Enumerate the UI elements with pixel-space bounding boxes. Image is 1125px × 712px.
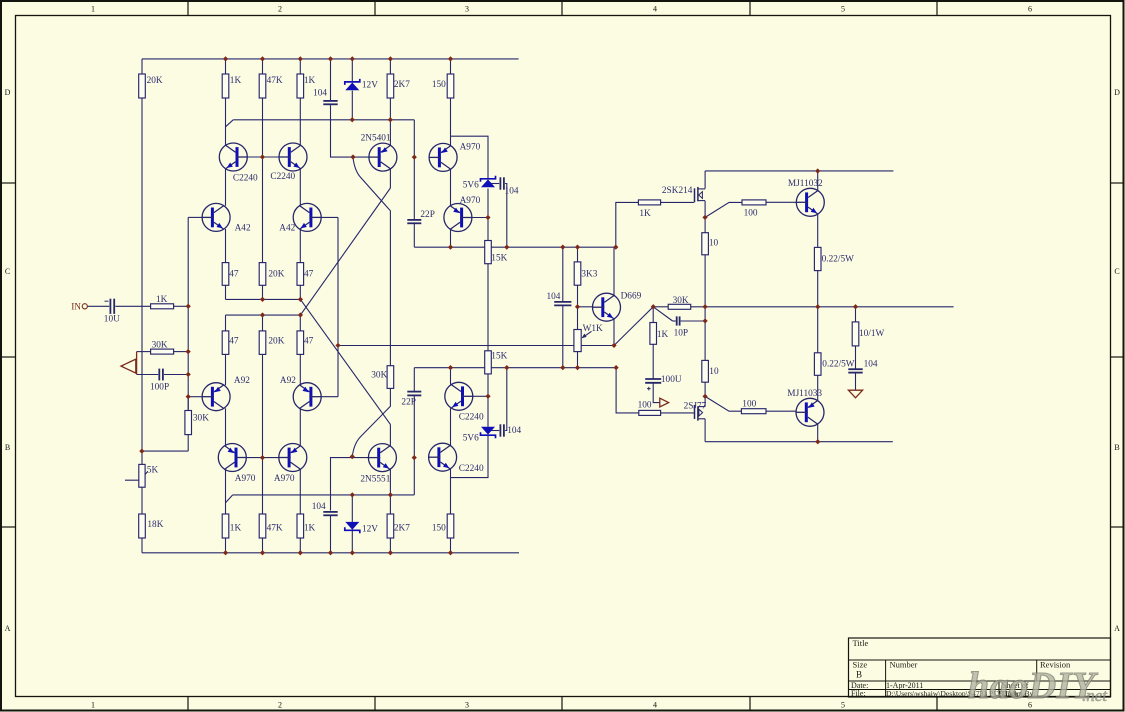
transistor A970 b <box>444 204 472 232</box>
mosfet 2SK214 <box>694 188 696 202</box>
svg-text:2SK214: 2SK214 <box>662 186 693 196</box>
svg-text:100: 100 <box>742 399 756 409</box>
wire A42b base <box>322 216 339 218</box>
svg-text:A970: A970 <box>460 143 481 153</box>
wire 1K to input node <box>174 305 189 307</box>
wire 150 top lead <box>450 59 452 74</box>
svg-text:10U: 10U <box>104 315 120 325</box>
resistor 1K gate <box>638 200 660 205</box>
wire 30K fb left lead <box>137 351 151 353</box>
zener 12V <box>345 79 360 85</box>
svg-text:A970: A970 <box>460 196 481 206</box>
wire 2K7L bottom lead <box>389 538 391 553</box>
svg-text:104: 104 <box>505 187 519 197</box>
transistor D669 <box>592 293 620 321</box>
resistor 100 top <box>742 200 766 205</box>
wire input port to 10U <box>87 305 109 307</box>
wire C2240U base <box>473 395 488 397</box>
svg-text:104: 104 <box>864 360 878 370</box>
svg-text:D669: D669 <box>621 291 642 301</box>
capacitor 22P <box>407 219 421 221</box>
wire second pair base vertical <box>337 217 339 396</box>
wire 1KL2 bottom lead <box>299 538 301 553</box>
transistor MJ11032 <box>796 188 824 216</box>
svg-text:6: 6 <box>1028 5 1032 14</box>
resistor 15K low <box>485 351 492 374</box>
svg-text:22P: 22P <box>420 210 434 220</box>
svg-text:B: B <box>5 443 10 452</box>
svg-text:3K3: 3K3 <box>581 269 597 279</box>
wire 1K to Q1 collector <box>225 98 227 146</box>
svg-text:0.22/5W: 0.22/5W <box>822 255 855 265</box>
wire 10b to 2SJ77 node <box>704 382 706 396</box>
svg-text:3: 3 <box>465 5 469 14</box>
wire 150 to A970a <box>450 98 452 146</box>
svg-text:47: 47 <box>304 269 314 279</box>
svg-text:20K: 20K <box>268 336 284 346</box>
wire 10P right lead <box>681 320 706 322</box>
wire A42b emitter to 47 <box>299 229 301 263</box>
wire x414 to 22PL <box>413 368 415 392</box>
wire jog to y495 bus <box>226 495 233 503</box>
capacitor 10P <box>676 316 678 325</box>
svg-text:1K: 1K <box>156 295 168 305</box>
resistor 18K <box>139 514 146 538</box>
svg-text:C2240: C2240 <box>270 172 295 182</box>
wire upper bus <box>226 298 301 300</box>
transistor A42 b <box>293 203 321 231</box>
resistor 100 gnd <box>639 410 661 415</box>
resistor 47K <box>259 74 266 98</box>
transistor A92 b <box>293 383 321 411</box>
svg-text:A92: A92 <box>280 376 296 386</box>
svg-text:30K: 30K <box>193 414 209 424</box>
wire Q1 emitter to A42a <box>225 169 227 206</box>
svg-text:100: 100 <box>638 401 652 411</box>
svg-text:20K: 20K <box>147 76 163 86</box>
wire 20K mid to upper bus <box>262 285 264 299</box>
wire 15K link vertical <box>487 264 489 351</box>
wire zobel top lead <box>855 307 857 322</box>
wire 2SJ77 drain to -V <box>704 419 706 442</box>
wire 47c to A92a emitter <box>225 354 227 385</box>
svg-text:1K: 1K <box>304 523 316 533</box>
wire vas lower rail y=368 <box>414 367 616 369</box>
wire 104mid bottom lead <box>562 306 564 368</box>
svg-text:A: A <box>5 624 11 633</box>
wire 5V6 tap <box>451 136 489 178</box>
svg-text:150: 150 <box>432 80 446 90</box>
transistor A970 L1 <box>218 444 246 472</box>
svg-text:5: 5 <box>841 701 845 710</box>
wire 1K bias to 100U <box>652 344 654 378</box>
capacitor 100P <box>158 369 160 381</box>
resistor 2K7 low <box>387 514 394 538</box>
svg-text:30K: 30K <box>673 296 689 306</box>
svg-text:30K: 30K <box>152 340 168 350</box>
wire 2K7 to 2N5401 collector <box>389 98 391 146</box>
svg-text:0.22/5W: 0.22/5W <box>822 360 855 370</box>
wire 0.22a to output rail <box>817 271 819 307</box>
wire 12VL anode lead <box>351 495 353 522</box>
svg-text:47K: 47K <box>267 523 283 533</box>
wire y495 bus <box>233 494 415 496</box>
wire MJ11033 collector <box>817 424 819 442</box>
svg-text:5K: 5K <box>147 466 159 476</box>
svg-text:1: 1 <box>91 5 95 14</box>
wire diag D669 to output <box>614 307 653 346</box>
wire 104a to 2N5401 base <box>331 105 369 157</box>
transistor 2N5551 <box>368 444 396 472</box>
svg-text:15K: 15K <box>491 352 507 362</box>
wire lower base node to 47KL <box>262 458 264 514</box>
wire left bias rail x=142 <box>141 98 143 451</box>
svg-text:5: 5 <box>841 5 845 14</box>
capacitor 100U <box>645 378 661 380</box>
capacitor 22P low <box>407 391 421 393</box>
resistor 150 <box>447 74 454 98</box>
svg-text:12V: 12V <box>362 80 378 90</box>
transistor A970 L2 <box>278 444 306 472</box>
wire group <box>87 59 953 553</box>
ground zobel <box>848 390 862 398</box>
svg-text:A970: A970 <box>274 474 295 484</box>
wire diag to 10P <box>653 307 672 321</box>
transistor 2N5401 <box>369 143 397 171</box>
wire A970b base <box>472 217 488 219</box>
svg-text:B: B <box>856 670 862 680</box>
wire A42a emitter to 47 <box>225 229 227 263</box>
wire 100U to ground port <box>653 383 659 402</box>
wire C2240U to vas lower rail <box>450 368 452 385</box>
svg-text:2K7: 2K7 <box>394 80 410 90</box>
resistor 1K <box>222 74 229 98</box>
resistor 30K fb <box>151 349 174 354</box>
resistor 1K low b <box>297 514 304 538</box>
hifidiy watermark <box>968 665 1108 707</box>
svg-text:4: 4 <box>653 5 657 14</box>
wire top supply rail <box>142 58 519 60</box>
wire A970L2 to 1KL2 <box>299 469 301 514</box>
resistor 47 a <box>222 263 229 286</box>
wire A970b to vas rail <box>450 229 452 247</box>
wire D669 emitter <box>613 319 615 346</box>
wire D669 collector <box>613 247 615 295</box>
wire Q2 emitter to A42b <box>299 169 301 206</box>
wire 10/1W to 104 zobel <box>855 346 857 369</box>
wire jog to y120 bus <box>226 120 234 127</box>
svg-text:100U: 100U <box>661 375 682 385</box>
ground port input <box>121 359 136 373</box>
wire +V output rail <box>705 170 893 172</box>
wire 104b cap left lead <box>488 183 499 185</box>
trimmer 5K <box>139 464 145 487</box>
capacitor 104 b <box>499 177 501 189</box>
wire A92b coll to A970L2 <box>299 408 301 446</box>
wire 104a cap top lead <box>330 59 332 100</box>
svg-text:1: 1 <box>91 701 95 710</box>
svg-text:File:: File: <box>851 689 866 698</box>
ground port output <box>660 398 669 407</box>
transistor A92 a <box>202 383 230 411</box>
wire 5V6L bottom tap <box>451 436 489 478</box>
wire input node vertical x=188 <box>187 217 189 410</box>
wire base node to 20K mid <box>262 157 264 263</box>
wire 22P to vas rail <box>413 224 415 248</box>
wire bottom supply rail <box>142 552 519 554</box>
wire 47b to upper bus <box>299 285 301 299</box>
resistor 15K <box>485 241 492 264</box>
transistor C2240 upper <box>445 382 473 410</box>
svg-text:104: 104 <box>507 426 521 436</box>
wire 104L to 2N5551 base <box>331 458 369 511</box>
svg-text:.net: .net <box>1082 686 1108 705</box>
svg-text:Number: Number <box>890 660 918 670</box>
wire 100gnd to 2SJ77 gate <box>661 412 694 414</box>
zener 5V6 <box>481 176 496 182</box>
wire diag lower bus to 2N5401 <box>300 188 390 315</box>
wire 10U to 1K <box>115 305 150 307</box>
wire 5K top lead <box>141 451 143 464</box>
resistor 47K low <box>259 514 266 538</box>
transistor Q2 C2240 <box>279 143 307 171</box>
wire 2N5401 emitter bend <box>389 169 391 188</box>
wire A970a emitter to A970b <box>450 169 452 206</box>
wire 47 to upper bus <box>225 285 227 299</box>
wire 10b to output rail <box>704 307 706 361</box>
wire 20K top lead <box>141 59 143 74</box>
resistor 47 b <box>297 263 304 286</box>
wire 12V zener anode lead <box>351 91 353 120</box>
svg-text:A970: A970 <box>235 474 256 484</box>
wire -V output rail <box>705 441 893 443</box>
svg-text:104: 104 <box>546 292 560 302</box>
wire diag source to 100 <box>705 202 742 217</box>
resistor 47 c <box>222 331 229 355</box>
resistor 10 b <box>702 360 709 382</box>
wire 2N5551 emitter bend <box>389 424 391 446</box>
wire 20KmL to lower base node <box>262 354 264 457</box>
wire 47c to lower bus <box>225 315 227 331</box>
wire 1KL bottom lead <box>225 538 227 553</box>
svg-text:Size: Size <box>853 660 868 670</box>
svg-text:10: 10 <box>709 239 719 249</box>
transistor A42 a <box>202 203 230 231</box>
resistor 1K input <box>151 304 174 309</box>
resistor 47 d <box>297 331 304 355</box>
svg-text:104: 104 <box>312 502 326 512</box>
wire vas rail to 1K gate <box>616 202 639 247</box>
wire output rail left <box>653 306 668 308</box>
wire 0.22b to output rail <box>817 307 819 353</box>
resistor 1K bias <box>650 323 657 345</box>
wire 12V zener top lead <box>351 59 353 81</box>
transistor MJ11033 <box>796 398 824 426</box>
svg-text:4: 4 <box>653 701 657 710</box>
resistor 0.22/5W a <box>814 247 821 270</box>
wire Q1-Q2 base link <box>248 156 280 158</box>
wire 10P left lead <box>673 320 676 322</box>
svg-text:47: 47 <box>229 269 239 279</box>
wire 150L bottom lead <box>450 538 452 553</box>
svg-text:2K7: 2K7 <box>394 523 410 533</box>
wire 100P right lead <box>164 374 188 376</box>
svg-text:47K: 47K <box>267 76 283 86</box>
wire 1Kb to Q2 collector <box>299 98 301 146</box>
resistor 10/1W <box>852 322 859 346</box>
svg-text:1K: 1K <box>230 523 242 533</box>
wire 150L to C2240L <box>450 469 452 514</box>
capacitor 10U <box>109 299 111 314</box>
svg-text:5V6: 5V6 <box>463 180 479 190</box>
wire 22PL to lower base node <box>413 395 415 495</box>
wire x414 vertical upper <box>413 120 415 220</box>
wire A92a base <box>188 396 202 398</box>
wire A92b base <box>322 396 339 398</box>
svg-text:2N5551: 2N5551 <box>360 475 390 485</box>
wire 47K to base node <box>262 98 264 157</box>
capacitor 104 low <box>323 511 337 513</box>
svg-text:2: 2 <box>278 5 282 14</box>
svg-text:22P: 22P <box>401 398 415 408</box>
wire 30K vert top lead <box>187 397 189 411</box>
svg-text:10/1W: 10/1W <box>859 329 885 339</box>
svg-text:10: 10 <box>709 367 719 377</box>
svg-text:12V: 12V <box>362 525 378 535</box>
capacitor 104 c <box>499 424 501 436</box>
wire D669 base <box>578 306 593 308</box>
resistor 0.22/5W b <box>814 353 821 376</box>
wire vas upper rail y=247 <box>414 246 616 248</box>
wire output rail <box>691 306 954 308</box>
resistor 20K mid low <box>259 331 266 355</box>
svg-text:15K: 15K <box>491 254 507 264</box>
wire 5V6 to A970b base node <box>487 189 489 241</box>
resistor 10 a <box>702 233 709 255</box>
svg-text:47: 47 <box>229 336 239 346</box>
wire 1K bias top lead <box>652 307 654 323</box>
wire 100P left lead <box>137 374 159 376</box>
svg-text:1K: 1K <box>639 209 651 219</box>
wire 30K fb right lead <box>174 351 189 353</box>
wire y120 bus <box>233 119 414 121</box>
transistor A970 a <box>429 143 457 171</box>
svg-text:104: 104 <box>313 89 327 99</box>
svg-text:30K: 30K <box>371 370 387 380</box>
wire 104mid top lead <box>562 247 564 302</box>
wire MJ11032 emitter <box>817 214 819 247</box>
resistor 150 low <box>447 514 454 538</box>
svg-text:5V6: 5V6 <box>463 434 479 444</box>
resistor 20K <box>139 74 146 98</box>
wire 30K vert bottom lead <box>187 435 189 452</box>
wire 3K3 top lead <box>577 247 579 262</box>
svg-text:C: C <box>1114 267 1119 276</box>
wire 20KmL to lower bus <box>262 315 264 331</box>
wire 47d to A92b emitter <box>299 354 301 385</box>
svg-text:2: 2 <box>278 701 282 710</box>
wire 2SK214 drain to +V <box>704 171 706 189</box>
capacitor 104 a <box>323 100 337 102</box>
wire 104c cap left lead <box>488 430 499 432</box>
svg-text:1K: 1K <box>657 330 669 340</box>
svg-text:haoDIY: haoDIY <box>968 665 1099 707</box>
wire W1K bottom lead <box>577 352 579 368</box>
svg-text:C2240: C2240 <box>459 464 484 474</box>
resistor 30K mid <box>387 366 394 389</box>
capacitor 104 zobel <box>848 368 862 370</box>
svg-text:MJ11033: MJ11033 <box>787 389 822 399</box>
wire 2K7L to 2N5551 collector <box>389 469 391 514</box>
wire 1K to 2SK214 gate <box>661 201 694 203</box>
wire 47d to lower bus <box>299 315 301 331</box>
zener 12V low <box>345 527 360 533</box>
svg-text:C2240: C2240 <box>233 174 258 184</box>
resistor 1K low <box>222 514 229 538</box>
wire 15KL to 5V6L <box>487 374 489 427</box>
wire 100 to MJ11032 base <box>766 201 796 203</box>
wire 12VL bottom lead <box>351 531 353 553</box>
resistor 100 low <box>741 409 766 414</box>
svg-text:A92: A92 <box>234 376 250 386</box>
resistor 30K out <box>668 304 691 309</box>
svg-text:1K: 1K <box>304 76 316 86</box>
svg-text:C2240: C2240 <box>459 413 484 423</box>
capacitor 104 mid <box>554 301 571 303</box>
wire 2N5401 base arc to 30K <box>353 157 390 365</box>
svg-text:D: D <box>5 88 11 97</box>
wire 104L bottom lead <box>330 516 332 553</box>
wire 2SK214 source <box>704 201 706 218</box>
zener 5V6 low <box>481 432 496 438</box>
transistor Q1 C2240 <box>219 143 247 171</box>
resistor 1K b <box>297 74 304 98</box>
svg-text:10P: 10P <box>674 329 688 339</box>
wire 47K top lead <box>262 59 264 74</box>
transistor C2240 lower <box>428 443 456 471</box>
svg-text:20K: 20K <box>268 269 284 279</box>
resistor 30K vert <box>185 411 192 435</box>
wire 2N5551 base arc to 30K <box>352 388 390 456</box>
wire C2240L to C2240U <box>450 408 452 445</box>
wire A970L1 to 1KL <box>225 469 227 514</box>
wire MJ11032 collector <box>817 171 819 191</box>
wire 47KL bottom lead <box>262 538 264 553</box>
svg-text:3: 3 <box>465 701 469 710</box>
svg-text:150: 150 <box>432 523 446 533</box>
wire A42a base <box>188 216 202 218</box>
wire 10a to output rail <box>704 255 706 307</box>
svg-text:MJ11032: MJ11032 <box>788 179 823 189</box>
resistor 20K mid <box>259 263 266 286</box>
wire 2SJ77 source <box>704 396 706 406</box>
svg-text:C: C <box>5 267 10 276</box>
svg-text:B: B <box>1114 443 1119 452</box>
svg-text:100P: 100P <box>150 383 169 393</box>
wire 10a top lead <box>704 217 706 232</box>
wire 104c cap to vas lower rail <box>505 368 507 431</box>
wire feedback line y=345 <box>338 345 616 347</box>
wire lower bus <box>226 314 301 316</box>
trimmer W1K <box>574 330 581 352</box>
svg-text:1K: 1K <box>230 76 242 86</box>
svg-text:IN: IN <box>71 303 81 313</box>
wire bias tap y=451 <box>142 450 188 452</box>
wire 1Kb col top lead <box>299 59 301 74</box>
mosfet 2SJ77 <box>694 405 696 419</box>
svg-text:100: 100 <box>744 209 758 219</box>
svg-text:47: 47 <box>304 336 314 346</box>
